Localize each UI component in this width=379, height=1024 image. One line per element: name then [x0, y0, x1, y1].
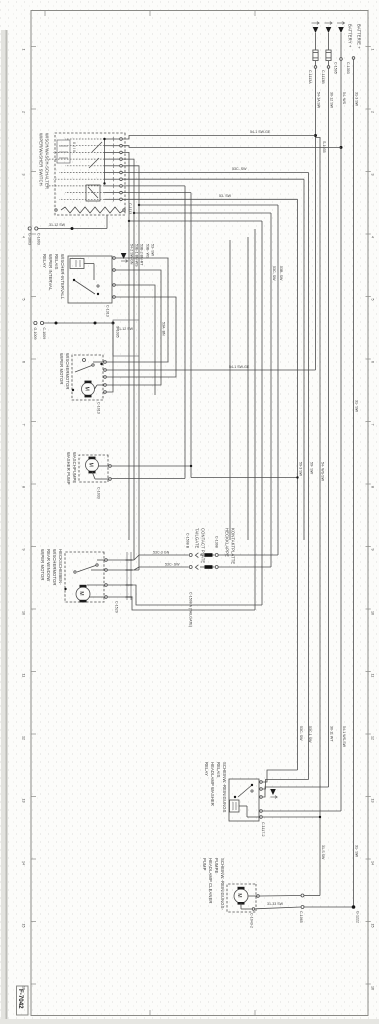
svg-text:G-1003: G-1003 — [28, 233, 32, 245]
feed arrow 3 (battery) — [337, 22, 345, 25]
grid tick top 14 — [366, 858, 371, 860]
headlamp relay wire — [239, 805, 247, 807]
svg-text:53C- SW: 53C- SW — [299, 726, 303, 741]
svg-text:C-1003: C-1003 — [37, 233, 41, 245]
svg-text:WIPER INTERVAL: WIPER INTERVAL — [48, 254, 53, 291]
svg-text:31-3 SW: 31-3 SW — [354, 92, 358, 107]
wire switch pin4 run — [122, 159, 134, 560]
wire feed 1 — [315, 33, 317, 50]
svg-text:59- SW: 59- SW — [309, 462, 313, 475]
wire relay pin4 — [106, 297, 176, 377]
svg-text:C-1113A: C-1113A — [308, 70, 312, 84]
svg-text:KONTAKTPLATTE: KONTAKTPLATTE — [231, 528, 236, 564]
grid tick top 13 — [366, 796, 371, 798]
contact plate circles top — [215, 554, 218, 557]
scan shadow bottom edge — [5, 30, 7, 1024]
headlamp pump pins — [257, 895, 260, 898]
grid tick bottom 10 — [31, 608, 36, 610]
wire branch S-1035 y59 — [316, 138, 321, 896]
node ground mid1 — [94, 322, 97, 325]
svg-text:8: 8 — [22, 486, 26, 488]
svg-text:2: 2 — [22, 111, 26, 113]
svg-text:53A- BN: 53A- BN — [162, 322, 166, 336]
grid tick bottom 1 — [31, 46, 36, 48]
node ground x228.5 — [71, 227, 74, 230]
svg-text:53C-3 GN: 53C-3 GN — [153, 551, 170, 555]
grid tick right — [149, 1010, 151, 1016]
interval relay box — [68, 256, 112, 303]
connector C-1303 circle — [352, 57, 355, 60]
svg-text:1: 1 — [22, 49, 26, 51]
wire riser y108 — [134, 212, 271, 214]
grid tick top 6 — [366, 358, 371, 360]
feed arrow 2 (battery) — [325, 22, 333, 25]
wire bus y124 to rear plug — [254, 229, 256, 610]
rear motor pins — [105, 559, 108, 562]
grid tick bottom 12 — [31, 733, 36, 735]
wire relay drop 817 — [262, 816, 320, 818]
svg-text:C-1117-2: C-1117-2 — [261, 822, 265, 836]
svg-text:31-12 SW: 31-12 SW — [117, 327, 134, 331]
wire switch pin5 run — [122, 166, 139, 570]
svg-text:12: 12 — [371, 736, 375, 740]
wire bus y81.5 to headlamp relay — [297, 199, 299, 770]
splice box — [113, 320, 139, 356]
wire bus y194 washer2 — [184, 186, 186, 479]
contact plate bar L — [205, 553, 213, 557]
node feed3 drop — [340, 146, 343, 149]
svg-text:53C- SW: 53C- SW — [272, 266, 276, 281]
svg-text:WISCHERMOTOR: WISCHERMOTOR — [52, 549, 57, 585]
wire bus y70.5 to headlamp relay — [308, 173, 310, 780]
contact plate wire L — [219, 554, 279, 556]
relay contact dots — [73, 279, 75, 281]
node motor j2 — [72, 389, 74, 391]
wire rear internal — [97, 559, 105, 561]
svg-text:RELAIS: RELAIS — [54, 254, 59, 270]
grid tick top 11 — [366, 671, 371, 673]
svg-text:31- SW: 31- SW — [354, 845, 358, 858]
grid tick top 10 — [366, 608, 371, 610]
motor park switch arm — [75, 365, 93, 372]
switch sub-box washer — [86, 185, 100, 201]
wire hpump ground — [304, 906, 353, 908]
rear park arm — [77, 565, 97, 572]
svg-text:53- SW: 53- SW — [151, 244, 155, 257]
svg-text:WIPER MOTOR: WIPER MOTOR — [40, 549, 45, 581]
svg-text:RELAIS: RELAIS — [216, 762, 221, 778]
wire bus y101 to tailgate — [277, 205, 279, 555]
relay contact arm — [74, 280, 95, 294]
svg-text:REAR WINDOW: REAR WINDOW — [46, 549, 51, 581]
motor M circle — [82, 383, 95, 396]
wire hpump internal — [248, 895, 257, 897]
svg-text:TAILGATE: TAILGATE — [195, 528, 200, 549]
wire bus y108 to tailgate — [270, 213, 272, 567]
svg-text:14: 14 — [22, 861, 26, 865]
grid tick bottom 14 — [31, 858, 36, 860]
svg-text:10: 10 — [22, 611, 26, 615]
wire pump drop 466 — [111, 465, 191, 467]
wire bus y75 — [303, 179, 305, 540]
wiper motor box (dashed) — [72, 355, 103, 400]
svg-text:C-1013: C-1013 — [97, 402, 101, 414]
switch sub-box arm — [88, 187, 98, 198]
svg-text:53E-1 BN-WS: 53E-1 BN-WS — [135, 244, 139, 267]
svg-text:9: 9 — [22, 549, 26, 551]
motor park circles — [92, 364, 94, 366]
svg-text:53B- WS: 53B- WS — [146, 244, 150, 259]
svg-text:WIPER/WASHER SWITCH: WIPER/WASHER SWITCH — [39, 133, 44, 186]
svg-text:7: 7 — [22, 424, 26, 426]
svg-text:15: 15 — [22, 924, 26, 928]
interval relay pins — [113, 257, 116, 260]
grid tick bottom 8 — [31, 483, 36, 485]
svg-text:5: 5 — [371, 299, 375, 301]
svg-text:M: M — [83, 387, 89, 391]
node S-1035 junction — [314, 134, 317, 137]
grid tick bottom 7 — [31, 421, 36, 423]
headlamp pump box (dashed) — [227, 884, 256, 912]
headlamp pump M circle — [234, 889, 248, 903]
node splice top — [112, 322, 115, 325]
rear plug chevrons — [195, 553, 198, 558]
svg-text:M: M — [87, 463, 93, 467]
svg-text:WASHER PUMP: WASHER PUMP — [66, 452, 71, 485]
svg-text:HEADLAMP CLEANER: HEADLAMP CLEANER — [208, 858, 213, 904]
rear motor brushes — [80, 585, 87, 588]
relay coil — [70, 259, 84, 269]
switch internal rail — [104, 139, 106, 184]
switch internal conductors — [105, 138, 120, 140]
wire relay pin3 — [115, 285, 155, 395]
grid tick bottom 9 — [31, 546, 36, 548]
svg-text:WISCHER-INTERVALL: WISCHER-INTERVALL — [60, 254, 65, 300]
svg-text:1: 1 — [371, 49, 375, 51]
wire motor ground — [44, 323, 113, 392]
wire bus y131 — [247, 237, 249, 540]
motor brushes — [85, 381, 92, 384]
grid tick left — [254, 11, 256, 17]
svg-text:C-1113: C-1113 — [128, 203, 132, 214]
svg-text:3: 3 — [22, 174, 26, 176]
headlamp relay box — [229, 779, 259, 821]
washer pump M circle — [86, 459, 99, 472]
svg-text:C-1033: C-1033 — [97, 487, 101, 499]
contact plate wire R — [219, 566, 272, 568]
wire bus y117 to rear plug — [261, 221, 263, 605]
svg-text:8: 8 — [371, 486, 375, 488]
grid tick top 5 — [366, 296, 371, 298]
grid tick bottom 16 — [31, 983, 36, 985]
svg-text:C-1529: C-1529 — [115, 601, 119, 613]
wire riser y101 — [139, 204, 278, 206]
switch pins row — [120, 138, 123, 141]
wire switch pin9 riser — [122, 192, 191, 194]
switch box (dashed) — [55, 133, 125, 215]
svg-text:31-33 SW: 31-33 SW — [267, 902, 284, 906]
wire relay drop 811 — [262, 810, 341, 812]
svg-text:5: 5 — [22, 299, 26, 301]
svg-text:WISCHERMOTOR: WISCHERMOTOR — [65, 353, 70, 389]
svg-text:3: 3 — [371, 174, 375, 176]
connector C-1113B circle — [327, 66, 330, 69]
wire switch pin7 riser — [122, 178, 304, 180]
wire relay drop 797 — [262, 787, 328, 797]
svg-text:C-1043-2: C-1043-2 — [250, 913, 254, 928]
grid tick bottom 6 — [31, 358, 36, 360]
grid tick bottom 13 — [31, 796, 36, 798]
wire relay drop 789 — [262, 780, 308, 790]
connector C-1505 circle — [340, 58, 343, 61]
headlamp relay coil — [230, 800, 240, 812]
svg-text:16: 16 — [371, 986, 375, 990]
ground stud circles G-1009 — [40, 321, 43, 324]
svg-text:53B-2 BN-RT: 53B-2 BN-RT — [140, 244, 144, 266]
wire rear pin 585 — [107, 585, 262, 605]
grid tick left — [149, 11, 151, 17]
flow arrow near headlamp relay — [270, 789, 276, 795]
svg-text:30-11 WT: 30-11 WT — [329, 726, 333, 742]
grid tick top 4 — [366, 233, 371, 235]
svg-text:HECKSCHEIBEN-: HECKSCHEIBEN- — [58, 549, 63, 585]
node rear motor j — [64, 588, 66, 590]
grid tick top 15 — [366, 921, 371, 923]
grid tick bottom 15 — [31, 921, 36, 923]
ground stud circles G-1003 — [35, 227, 38, 230]
grid tick top 8 — [366, 483, 371, 485]
sheet number box F-7042 — [17, 986, 29, 1015]
svg-text:31-S SW: 31-S SW — [321, 845, 325, 860]
zigzag end circles — [123, 209, 125, 211]
wire bus y149 — [229, 240, 231, 540]
svg-text:HECKKLAPPE: HECKKLAPPE — [225, 528, 230, 557]
wire switch pin8 riser — [122, 185, 185, 187]
svg-text:C-1508 A (TAILGATE): C-1508 A (TAILGATE) — [189, 592, 193, 627]
wire switch pin6 riser — [122, 172, 308, 174]
wire motor internal — [93, 361, 104, 363]
switch contact arm 2 — [89, 158, 99, 168]
contact plate bar R — [205, 565, 213, 569]
grid tick top 7 — [366, 421, 371, 423]
svg-text:WISCH/WASCH-SCHALTER: WISCH/WASCH-SCHALTER — [45, 133, 50, 189]
wire pump internal — [99, 465, 109, 467]
svg-text:C-1313: C-1313 — [106, 305, 110, 317]
svg-text:12: 12 — [22, 736, 26, 740]
resistor zigzag (switch mechanical) — [61, 207, 124, 213]
svg-text:WIPER MOTOR: WIPER MOTOR — [59, 353, 64, 385]
svg-text:13: 13 — [22, 799, 26, 803]
svg-text:BATTERY +: BATTERY + — [348, 24, 353, 48]
svg-text:C-1308: C-1308 — [215, 536, 219, 548]
svg-text:CONTACT PLATE: CONTACT PLATE — [201, 528, 206, 563]
wire riser y117 — [129, 220, 262, 222]
grid tick top 3 — [366, 171, 371, 173]
wire switch pin3 run — [122, 152, 129, 540]
headlamp relay arm — [238, 785, 252, 797]
wire drop feed1 to pin1 — [122, 136, 315, 140]
switch contact arm 1 — [92, 142, 102, 152]
headlamp pump brushes — [238, 887, 245, 890]
svg-text:30-12 SW: 30-12 SW — [329, 92, 333, 109]
grid tick bottom 5 — [31, 296, 36, 298]
switch sub-box 2 — [57, 140, 70, 163]
wire rear pin 597 — [107, 597, 255, 610]
svg-text:0 J I II: 0 J I II — [72, 142, 76, 152]
wire relay drop 782 — [262, 770, 297, 782]
grid tick top 1 — [366, 46, 371, 48]
wire drop feed3 to pin2 — [122, 146, 341, 148]
grid tick top 12 — [366, 733, 371, 735]
svg-text:HEADLAMP WASHER: HEADLAMP WASHER — [210, 762, 215, 806]
wiper motor pins — [104, 361, 107, 364]
grid tick bottom 11 — [31, 671, 36, 673]
wire feed 2 — [328, 33, 330, 50]
grid tick top 9 — [366, 546, 371, 548]
svg-text:6: 6 — [371, 361, 375, 363]
connector circle C-1065 a — [301, 894, 304, 897]
svg-text:G-1222: G-1222 — [356, 911, 360, 923]
grid tick bottom 4 — [31, 233, 36, 235]
contact plate circles bottom — [189, 554, 192, 557]
svg-text:SCHEINW.-REINIGUNGS-: SCHEINW.-REINIGUNGS- — [220, 858, 225, 911]
svg-text:C-1505: C-1505 — [334, 62, 338, 74]
grid tick top 16 — [366, 983, 371, 985]
node ground G-1222 — [352, 905, 356, 909]
svg-text:G-1009: G-1009 — [33, 328, 37, 340]
flow arrow near interval relay — [121, 253, 127, 259]
svg-text:10: 10 — [371, 611, 375, 615]
wire relay pin1 — [106, 258, 168, 362]
svg-text:C-1009: C-1009 — [42, 328, 46, 340]
svg-text:53B- SW: 53B- SW — [279, 266, 283, 281]
svg-text:54- WS-SW: 54- WS-SW — [321, 462, 325, 482]
relay internal wire — [84, 263, 94, 265]
svg-text:M: M — [78, 591, 84, 595]
svg-text:31- SW: 31- SW — [354, 400, 358, 413]
svg-text:54- WS: 54- WS — [342, 92, 346, 105]
svg-text:54-1 SW-GE: 54-1 SW-GE — [250, 130, 271, 134]
svg-text:C-1065: C-1065 — [299, 911, 303, 923]
svg-text:PUMP: PUMP — [202, 858, 207, 871]
wiper motor feed drop — [106, 369, 315, 371]
wire pump drop 478.5 — [111, 478, 185, 480]
wire washer jog x477.5 — [191, 477, 298, 479]
fuse F1 — [313, 50, 318, 61]
svg-text:RELAY: RELAY — [42, 254, 47, 268]
washer pump box (dashed) — [79, 455, 108, 482]
svg-text:54-1 SW-GE: 54-1 SW-GE — [229, 365, 250, 369]
svg-text:C-1303: C-1303 — [346, 62, 350, 74]
svg-text:S-1035: S-1035 — [322, 141, 326, 153]
switch contact ticks — [113, 137, 115, 141]
svg-text:53C- SW: 53C- SW — [232, 167, 247, 171]
svg-text:31-12 SW: 31-12 SW — [49, 223, 66, 227]
washer pump brushes — [89, 457, 96, 460]
fuse F2 — [326, 50, 331, 61]
rear wiper motor box (dashed) — [65, 552, 104, 602]
grid tick left — [44, 11, 46, 17]
connector C-1529 — [130, 552, 132, 600]
svg-text:WASCHPUMPE: WASCHPUMPE — [72, 452, 77, 483]
connector circle C-1065 b — [301, 906, 304, 909]
svg-text:4: 4 — [22, 236, 26, 238]
connector C-1113A circle — [314, 66, 317, 69]
grid tick bottom 2 — [31, 108, 36, 110]
svg-text:M: M — [236, 893, 242, 897]
grid tick top 2 — [366, 108, 371, 110]
rear motor M circle — [76, 587, 90, 601]
svg-text:BATTERIE +: BATTERIE + — [357, 24, 362, 49]
wire relay pin2 — [106, 270, 161, 385]
node ground mid2 — [55, 322, 58, 325]
svg-text:7: 7 — [371, 424, 375, 426]
svg-text:RELAY: RELAY — [204, 762, 209, 776]
svg-text:C-1113B: C-1113B — [321, 70, 325, 84]
rear park circles — [96, 564, 98, 566]
svg-text:14: 14 — [371, 861, 375, 865]
headlamp relay pins — [260, 781, 263, 784]
svg-text:53- SW: 53- SW — [219, 194, 232, 198]
wire hpump feed — [304, 895, 320, 897]
svg-text:9: 9 — [371, 549, 375, 551]
svg-text:6: 6 — [22, 361, 26, 363]
svg-text:4: 4 — [371, 236, 375, 238]
svg-text:54-1 WS-SW: 54-1 WS-SW — [342, 726, 346, 748]
svg-text:13: 13 — [371, 799, 375, 803]
svg-text:2: 2 — [371, 111, 375, 113]
wire bus y188 washer — [190, 193, 192, 478]
feed arrow 1 (battery) — [312, 22, 320, 25]
svg-text:54-1A SW: 54-1A SW — [316, 92, 320, 109]
grid tick bottom 3 — [31, 171, 36, 173]
grid tick right — [254, 1010, 256, 1016]
node motor j1 — [100, 363, 102, 365]
washer pump pins — [109, 465, 112, 468]
wire ground bus 31 — [353, 58, 355, 907]
wire switch pin10 riser — [122, 198, 297, 200]
svg-text:11: 11 — [22, 674, 26, 678]
svg-text:SCHEINW.-REINIGUNGS: SCHEINW.-REINIGUNGS — [222, 762, 227, 813]
svg-text:F-7042: F-7042 — [17, 989, 24, 1009]
svg-text:15: 15 — [371, 924, 375, 928]
wire rear pin 570 — [107, 569, 139, 571]
wire feed 3 — [340, 33, 342, 811]
svg-text:59-3 SW: 59-3 SW — [298, 462, 302, 477]
wire ground x228.5 — [106, 215, 108, 229]
svg-text:54-2 SW-GN: 54-2 SW-GN — [130, 244, 134, 265]
svg-text:53C- SW: 53C- SW — [165, 563, 180, 567]
svg-text:11: 11 — [371, 674, 375, 678]
wire rear pin 560 — [107, 559, 134, 561]
svg-text:C-1508 B: C-1508 B — [186, 533, 190, 549]
headlamp relay dots — [251, 784, 253, 786]
svg-text:PUMPE: PUMPE — [214, 858, 219, 873]
svg-text:53C-1 SW: 53C-1 SW — [308, 726, 312, 743]
